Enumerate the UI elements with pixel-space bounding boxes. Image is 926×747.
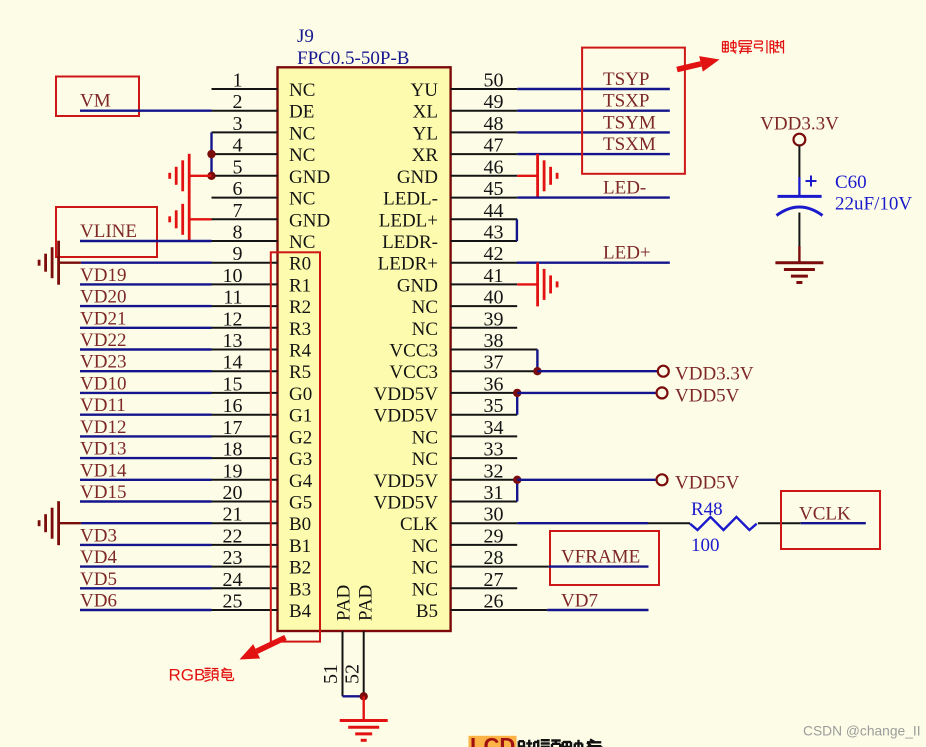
wire net VD23 to pin 14	[80, 370, 212, 372]
pin 26 stub wire	[451, 609, 548, 611]
pin 46 stub wire	[451, 175, 518, 177]
wire net VD11 to pin 16	[80, 414, 212, 416]
svg-text:NC: NC	[412, 579, 438, 600]
svg-text:28: 28	[484, 547, 504, 569]
power port circle VDD3.3V	[658, 366, 669, 377]
svg-text:NC: NC	[412, 449, 438, 470]
svg-text:35: 35	[484, 395, 504, 417]
svg-text:VDD5V: VDD5V	[374, 406, 439, 427]
svg-text:26: 26	[484, 591, 504, 613]
annotation text 触屏引脚 (touch screen pins)	[723, 40, 737, 53]
svg-text:NC: NC	[289, 145, 315, 166]
svg-text:XL: XL	[413, 102, 438, 123]
ground stem at pin 9	[59, 262, 81, 264]
svg-text:20: 20	[223, 482, 243, 504]
capacitor C60 top plate	[778, 195, 822, 198]
svg-text:NC: NC	[412, 558, 438, 579]
svg-text:R3: R3	[289, 319, 311, 340]
svg-text:VDD3.3V: VDD3.3V	[760, 114, 839, 135]
svg-text:30: 30	[484, 504, 504, 526]
svg-text:VD14: VD14	[80, 460, 127, 481]
svg-text:49: 49	[484, 91, 504, 113]
svg-text:C60: C60	[835, 172, 867, 193]
pin 10 stub wire	[212, 283, 278, 285]
svg-text:R2: R2	[289, 297, 311, 318]
svg-text:VDD5V: VDD5V	[374, 493, 439, 514]
svg-text:47: 47	[484, 135, 504, 157]
svg-text:VD22: VD22	[80, 330, 126, 351]
svg-text:VDD5V: VDD5V	[374, 384, 439, 405]
pin 41 stub wire	[451, 283, 518, 285]
svg-text:R1: R1	[289, 275, 311, 296]
svg-text:51: 51	[320, 664, 342, 684]
arrow to touch-screen note	[677, 64, 701, 70]
wire net VD5 to pin 24	[80, 587, 212, 589]
pin 6 stub wire	[212, 197, 278, 199]
svg-text:NC: NC	[289, 189, 315, 210]
svg-text:VDD5V: VDD5V	[675, 472, 740, 493]
svg-text:NC: NC	[412, 319, 438, 340]
ground symbol at pin 41	[536, 262, 539, 306]
pin 13 stub wire	[212, 349, 278, 351]
svg-text:LEDL-: LEDL-	[383, 189, 438, 210]
svg-text:G2: G2	[289, 427, 312, 448]
svg-text:VD4: VD4	[80, 547, 117, 568]
wire net VD12 to pin 17	[80, 435, 212, 437]
svg-text:48: 48	[484, 113, 504, 135]
pin 36 stub wire	[451, 392, 518, 394]
svg-text:27: 27	[484, 569, 504, 591]
svg-text:9: 9	[233, 243, 243, 265]
svg-text:40: 40	[484, 287, 504, 309]
pin 52 wire	[363, 631, 365, 696]
svg-text:VLINE: VLINE	[80, 221, 137, 242]
svg-text:LCD: LCD	[470, 734, 515, 747]
ground symbol at pin 46	[536, 154, 539, 198]
svg-text:TSYM: TSYM	[603, 112, 656, 133]
svg-text:VD7: VD7	[561, 591, 598, 612]
port box VM	[56, 77, 139, 117]
svg-text:100: 100	[691, 535, 720, 556]
svg-text:B4: B4	[289, 601, 312, 622]
svg-text:NC: NC	[289, 80, 315, 101]
svg-text:VD10: VD10	[80, 373, 126, 394]
svg-text:3: 3	[233, 113, 243, 135]
wire CLK to resistor	[648, 522, 690, 524]
svg-text:VD5: VD5	[80, 569, 117, 590]
port box VCLK	[781, 491, 880, 549]
svg-text:PAD: PAD	[356, 585, 377, 621]
pin 11 stub wire	[212, 305, 278, 307]
svg-text:25: 25	[223, 591, 243, 613]
svg-text:VD12: VD12	[80, 417, 126, 438]
pin 28 stub wire	[451, 566, 549, 568]
svg-text:B3: B3	[289, 579, 311, 600]
pin 23 stub wire	[212, 566, 278, 568]
svg-text:19: 19	[223, 460, 243, 482]
svg-text:41: 41	[484, 265, 504, 287]
ground symbol below C60	[775, 261, 823, 264]
connector J9 body (FPC0.5-50P-B)	[278, 67, 451, 631]
pin 22 stub wire	[212, 544, 278, 546]
pin 34 stub wire	[451, 435, 518, 437]
pin 3 stub wire	[212, 131, 278, 133]
svg-text:R0: R0	[289, 254, 311, 275]
ground stem at pin 41	[517, 283, 537, 285]
svg-text:VDD5V: VDD5V	[675, 385, 740, 406]
svg-text:VD6: VD6	[80, 591, 117, 612]
svg-text:46: 46	[484, 156, 504, 178]
svg-text:GND: GND	[289, 167, 330, 188]
junction pins 36-35	[513, 389, 521, 397]
wire net VD7 pin 26	[547, 609, 648, 611]
svg-text:VD13: VD13	[80, 439, 126, 460]
pin 42 stub wire	[451, 262, 518, 264]
ground stem at pin 7	[189, 218, 211, 220]
wire pin32 to VDD5V port	[517, 479, 656, 481]
svg-text:R48: R48	[691, 499, 723, 520]
ground symbol at pin 9	[57, 241, 60, 285]
ground stem at pin 46	[517, 175, 537, 177]
wire net TSXM pin 47	[517, 153, 670, 155]
svg-text:VDD5V: VDD5V	[374, 471, 439, 492]
pin 38 stub wire	[451, 349, 538, 351]
svg-text:YU: YU	[411, 80, 439, 101]
wire net VD22 to pin 13	[80, 348, 212, 350]
wire pads to ground	[363, 696, 365, 720]
wire pin 9 to ground	[81, 262, 212, 264]
svg-text:33: 33	[484, 439, 504, 461]
svg-text:22: 22	[223, 525, 243, 547]
svg-text:12: 12	[223, 308, 243, 330]
svg-text:22uF/10V: 22uF/10V	[835, 194, 912, 215]
ground stem at pin 21	[59, 522, 81, 524]
svg-text:VM: VM	[80, 91, 111, 112]
svg-text:G1: G1	[289, 406, 312, 427]
wire VCLK net	[801, 522, 866, 524]
svg-text:VD21: VD21	[80, 308, 126, 329]
wire pin3-pin5 vertical	[210, 132, 212, 175]
pin 29 stub wire	[451, 544, 518, 546]
svg-text:5: 5	[233, 156, 243, 178]
svg-text:G4: G4	[289, 471, 313, 492]
junction pads	[360, 692, 368, 700]
svg-text:VD19: VD19	[80, 265, 126, 286]
annotation box around RGB pins	[271, 252, 320, 641]
pin 8 stub wire	[212, 240, 278, 242]
wire net VM to pin 2	[80, 109, 212, 111]
svg-text:36: 36	[484, 373, 504, 395]
svg-text:TSYP: TSYP	[603, 69, 649, 90]
wire C60 ground lead	[798, 246, 800, 263]
capacitor C60 bottom plate arc	[777, 207, 823, 216]
svg-text:GND: GND	[289, 210, 330, 231]
pin 50 stub wire	[451, 88, 518, 90]
wire pin32 down to pin31	[516, 480, 518, 502]
pin 30 stub wire	[451, 522, 518, 524]
svg-text:31: 31	[484, 482, 504, 504]
svg-text:VCC3: VCC3	[389, 341, 438, 362]
wire net LED- pin 45	[517, 196, 670, 198]
svg-text:VCC3: VCC3	[389, 362, 438, 383]
pin 7 stub wire	[212, 218, 278, 220]
svg-text:LED-: LED-	[603, 178, 646, 199]
svg-text:B5: B5	[416, 601, 438, 622]
pin 15 stub wire	[212, 392, 278, 394]
svg-text:17: 17	[223, 417, 243, 439]
svg-text:G0: G0	[289, 384, 312, 405]
wire pin36 to VDD5V port	[517, 392, 656, 394]
pin 20 stub wire	[212, 501, 278, 503]
svg-text:29: 29	[484, 525, 504, 547]
wire pin37 to VDD3.3V port	[537, 370, 657, 372]
capacitor C60 positive lead	[798, 177, 800, 196]
svg-text:24: 24	[223, 569, 243, 591]
svg-text:2: 2	[233, 91, 243, 113]
pin 45 stub wire	[451, 197, 518, 199]
junction pin 5	[207, 172, 215, 180]
svg-text:23: 23	[223, 547, 243, 569]
pin 48 stub wire	[451, 131, 518, 133]
arrow to RGB note	[257, 638, 286, 652]
junction pin 4	[207, 150, 215, 158]
svg-text:LEDL+: LEDL+	[379, 210, 438, 231]
wire net VD10 to pin 15	[80, 392, 212, 394]
wire resistor to VCLK	[758, 522, 801, 524]
svg-text:VD23: VD23	[80, 352, 126, 373]
wire net VD6 to pin 25	[80, 609, 212, 611]
wire net VD14 to pin 19	[80, 479, 212, 481]
wire C60 to ground	[798, 213, 800, 247]
junction pins 38-37	[533, 367, 541, 375]
svg-text:FPC0.5-50P-B: FPC0.5-50P-B	[297, 48, 409, 69]
svg-text:21: 21	[223, 504, 243, 526]
svg-text:RGB: RGB	[169, 666, 206, 685]
svg-text:32: 32	[484, 460, 504, 482]
power port circle VDD3.3V (top)	[794, 134, 806, 146]
caption text 接口插座 (partially visible)	[519, 740, 539, 747]
svg-text:TSXP: TSXP	[603, 91, 649, 112]
svg-text:VD3: VD3	[80, 525, 117, 546]
ground symbol at pin 21	[57, 501, 60, 545]
pin 21 stub wire	[212, 522, 278, 524]
power port circle VDD5V (pin36)	[657, 387, 668, 398]
svg-text:8: 8	[233, 222, 243, 244]
wire net VD4 to pin 23	[80, 565, 212, 567]
annotation box touch-screen pins	[582, 48, 685, 174]
svg-text:1: 1	[233, 70, 243, 92]
resistor R48 zigzag	[690, 517, 757, 530]
wire pin44-pin43 vertical	[516, 219, 518, 241]
pin 40 stub wire	[451, 305, 518, 307]
pin 35 stub wire	[451, 414, 518, 416]
pin 18 stub wire	[212, 457, 278, 459]
svg-text:VD15: VD15	[80, 482, 126, 503]
pin 39 stub wire	[451, 327, 518, 329]
svg-text:43: 43	[484, 222, 504, 244]
svg-text:VDD3.3V: VDD3.3V	[675, 364, 754, 385]
svg-text:37: 37	[484, 352, 504, 374]
svg-text:7: 7	[233, 200, 243, 222]
svg-text:VFRAME: VFRAME	[561, 547, 640, 568]
wire net LED+ pin 42	[517, 262, 670, 264]
svg-text:44: 44	[484, 200, 504, 222]
wire VDD3.3V to C60	[798, 146, 800, 178]
svg-text:DE: DE	[289, 102, 314, 123]
wire net CLK from pin 30	[517, 522, 648, 524]
pin 47 stub wire	[451, 153, 518, 155]
svg-text:14: 14	[223, 352, 243, 374]
wire net TSYP pin 50	[517, 88, 670, 90]
pin 5 stub wire	[212, 175, 278, 177]
port box VFRAME	[550, 531, 659, 585]
wire net VD20 to pin 11	[80, 305, 212, 307]
svg-text:J9: J9	[297, 26, 314, 47]
pin 25 stub wire	[212, 609, 278, 611]
svg-text:G5: G5	[289, 493, 312, 514]
svg-text:VCLK: VCLK	[799, 504, 851, 525]
capacitor C60 plus sign	[806, 176, 817, 187]
svg-text:NC: NC	[412, 297, 438, 318]
pin 32 stub wire	[451, 479, 518, 481]
svg-text:VD11: VD11	[80, 395, 126, 416]
svg-text:39: 39	[484, 308, 504, 330]
svg-text:13: 13	[223, 330, 243, 352]
wire net VD19 to pin 10	[80, 283, 212, 285]
wire pin 21 to ground	[81, 522, 212, 524]
svg-text:XR: XR	[412, 145, 439, 166]
svg-text:LEDR-: LEDR-	[382, 232, 438, 253]
wire net TSYM pin 48	[517, 131, 670, 133]
pin 24 stub wire	[212, 587, 278, 589]
svg-text:B2: B2	[289, 558, 311, 579]
svg-text:R5: R5	[289, 362, 311, 383]
svg-text:GND: GND	[397, 275, 438, 296]
junction pins 32-31	[513, 476, 521, 484]
svg-text:10: 10	[223, 265, 243, 287]
pin 43 stub wire	[451, 240, 518, 242]
pin 49 stub wire	[451, 110, 518, 112]
pin 2 stub wire	[212, 110, 278, 112]
svg-text:LEDR+: LEDR+	[378, 254, 438, 275]
pin 1 stub wire	[212, 88, 278, 90]
wire net VFRAME pin 28	[549, 565, 649, 567]
svg-text:VD20: VD20	[80, 287, 126, 308]
pin 44 stub wire	[451, 218, 518, 220]
svg-text:50: 50	[484, 70, 504, 92]
port box VLINE	[56, 207, 157, 257]
svg-text:34: 34	[484, 417, 504, 439]
pin 12 stub wire	[212, 327, 278, 329]
pin 31 stub wire	[451, 501, 518, 503]
svg-text:4: 4	[233, 135, 243, 157]
svg-text:PAD: PAD	[334, 585, 355, 621]
svg-text:CSDN @change_II: CSDN @change_II	[803, 724, 921, 739]
wire net VD15 to pin 20	[80, 500, 212, 502]
svg-text:NC: NC	[289, 232, 315, 253]
pin 51 wire	[342, 631, 344, 696]
pin 17 stub wire	[212, 435, 278, 437]
svg-text:16: 16	[223, 395, 243, 417]
svg-text:CLK: CLK	[400, 514, 438, 535]
pin 16 stub wire	[212, 414, 278, 416]
svg-text:18: 18	[223, 439, 243, 461]
svg-text:NC: NC	[412, 427, 438, 448]
pin 4 stub wire	[212, 153, 278, 155]
pin 33 stub wire	[451, 457, 518, 459]
svg-text:52: 52	[342, 664, 364, 684]
pin 19 stub wire	[212, 479, 278, 481]
svg-text:NC: NC	[289, 123, 315, 144]
wire pin36 down to pin35	[516, 393, 518, 415]
wire net VLINE to pin 8	[80, 240, 212, 242]
ground symbol at pin 5	[188, 154, 191, 198]
svg-text:38: 38	[484, 330, 504, 352]
pin 27 stub wire	[451, 587, 518, 589]
pin 37 stub wire	[451, 370, 538, 372]
power port circle VDD5V (pin32)	[657, 474, 668, 485]
svg-text:6: 6	[233, 178, 243, 200]
pin 14 stub wire	[212, 370, 278, 372]
wire net TSXP pin 49	[517, 109, 670, 111]
svg-text:G3: G3	[289, 449, 312, 470]
svg-text:45: 45	[484, 178, 504, 200]
svg-text:NC: NC	[412, 536, 438, 557]
ground stem at pin 5	[189, 175, 211, 177]
wire pin38 down to pin37	[536, 350, 538, 372]
svg-text:15: 15	[223, 373, 243, 395]
svg-text:B0: B0	[289, 514, 311, 535]
svg-text:TSXM: TSXM	[603, 134, 656, 155]
wire pin51 to pin52	[343, 695, 364, 697]
ground symbol at pin 7	[188, 197, 191, 241]
wire net VD3 to pin 22	[80, 544, 212, 546]
svg-text:11: 11	[223, 287, 242, 309]
wire net VD21 to pin 12	[80, 327, 212, 329]
svg-text:42: 42	[484, 243, 504, 265]
svg-text:YL: YL	[413, 123, 438, 144]
svg-text:R4: R4	[289, 341, 312, 362]
pin 9 stub wire	[212, 262, 278, 264]
svg-text:B1: B1	[289, 536, 311, 557]
wire net VD13 to pin 18	[80, 457, 212, 459]
svg-text:GND: GND	[397, 167, 438, 188]
ground symbol below pads	[340, 719, 388, 722]
svg-text:LED+: LED+	[603, 243, 651, 264]
caption highlight	[469, 736, 517, 747]
